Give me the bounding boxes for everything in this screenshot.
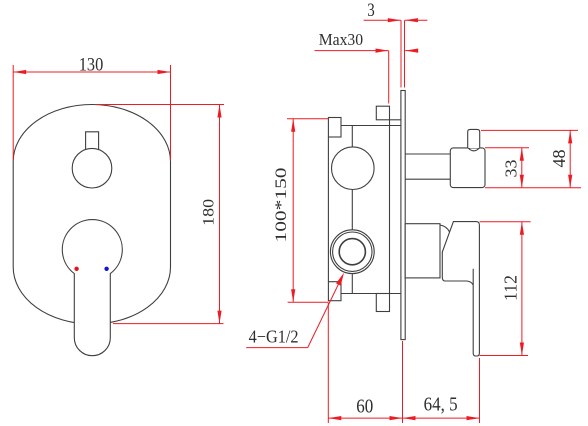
diverter knob button rectangle xyxy=(86,132,99,150)
svg-text:4−G1/2: 4−G1/2 xyxy=(249,327,299,347)
dimension 180 extension line bottom xyxy=(113,323,224,325)
dimension Max30 arrow left-pointing xyxy=(405,49,418,53)
dimension 60 line xyxy=(328,417,402,419)
mounting tab top-left xyxy=(328,118,341,138)
dimension 180 line xyxy=(219,105,221,324)
dimension 60/64,5 extension middle xyxy=(402,341,404,423)
dimension 112 extension bottom xyxy=(480,355,528,357)
dimension 112 extension top xyxy=(480,221,531,223)
lever handle outline (side view) xyxy=(442,222,479,356)
svg-text:Max30: Max30 xyxy=(319,30,363,49)
tab-to-plate line top xyxy=(390,119,402,121)
svg-text:60: 60 xyxy=(356,397,373,418)
dimension 130 extension line left xyxy=(12,65,14,160)
dimension Max30 extension line xyxy=(388,51,390,104)
dimension 180 arrow top xyxy=(217,105,221,118)
dimension 100*150 text xyxy=(273,168,290,243)
dimension 48 arrow top xyxy=(568,130,572,143)
dimension 33 line xyxy=(521,148,523,188)
outlet stub fillet arc xyxy=(468,148,479,151)
dimension 100*150 extension bottom xyxy=(288,301,329,303)
dimension Max30 line right xyxy=(405,50,413,52)
dimension 64,5 arrow left xyxy=(403,416,416,420)
dimension 3 extension pair left xyxy=(400,20,402,87)
dimension 100*150 line xyxy=(292,119,294,302)
dimension 3 arrow right xyxy=(405,18,418,22)
label 4-G1/2 text xyxy=(249,327,299,347)
dimension 60 extension left xyxy=(327,303,329,423)
extension line elbow bottom xyxy=(485,187,581,189)
dimension 180 extension line top xyxy=(97,104,224,106)
dimension Max30 line left xyxy=(315,50,389,52)
dimension 3 line left xyxy=(364,19,401,21)
valve body outline xyxy=(328,120,401,294)
svg-text:100*150: 100*150 xyxy=(273,168,290,243)
dimension 64,5 line xyxy=(403,417,480,419)
handle boss (escutcheon sleeve) xyxy=(405,224,440,278)
dimension 112 arrow bottom xyxy=(520,343,524,356)
valve body centerline xyxy=(351,126,353,294)
hot indicator red dot xyxy=(74,267,78,271)
dimension 64,5 extension right xyxy=(479,358,481,423)
lever handle (front view, circle + stem outline) xyxy=(62,220,122,356)
inlet port outer circle xyxy=(330,230,374,274)
faceplate (front view escutcheon oval) xyxy=(13,105,170,325)
wall plate (3mm panel, side view) xyxy=(401,91,405,340)
dimension 180 arrow bottom xyxy=(217,311,221,324)
outlet elbow block xyxy=(450,148,485,188)
dimension 33 arrow bottom xyxy=(520,175,524,188)
mounting tab bottom-left xyxy=(328,282,341,301)
diverter knob circle (front view) xyxy=(72,148,112,188)
leader 4-G1/2 underline xyxy=(246,347,308,349)
dimension 100*150 arrow bottom xyxy=(291,289,295,302)
dimension 3 text xyxy=(367,1,375,21)
dimension 112 text xyxy=(500,275,520,301)
dimension Max30 arrow xyxy=(376,49,389,53)
dimension 100*150 arrow top xyxy=(291,119,295,132)
extension line elbow stub top xyxy=(481,129,578,131)
dimension Max30 text xyxy=(319,30,363,49)
dimension 33 text xyxy=(502,160,521,178)
svg-text:33: 33 xyxy=(502,160,521,178)
dimension 48 line xyxy=(569,130,571,187)
dimension 3 arrow left xyxy=(388,18,401,22)
dimension 64,5 arrow right xyxy=(467,416,480,420)
dimension 112 arrow top xyxy=(520,222,524,235)
dimension 130 extension line right xyxy=(170,65,172,161)
shower outlet pipe top edge xyxy=(405,153,450,155)
leader 4-G1/2 line xyxy=(308,278,342,348)
cold indicator blue dot xyxy=(104,267,108,271)
svg-text:130: 130 xyxy=(79,54,104,75)
mounting tab bottom-right xyxy=(376,294,389,312)
dimension 130 arrow left xyxy=(13,70,26,74)
svg-text:48: 48 xyxy=(549,149,569,167)
extension line elbow top xyxy=(485,147,529,149)
dimension 60 arrow right xyxy=(390,416,403,420)
dimension 60 arrow left xyxy=(328,416,341,420)
dimension 180 text xyxy=(200,199,217,226)
dimension 130 text xyxy=(79,54,104,75)
lever blade front edge line xyxy=(472,269,474,285)
svg-text:180: 180 xyxy=(200,199,217,226)
dimension 3 extension pair right xyxy=(404,20,406,87)
inlet port middle circle xyxy=(333,232,372,271)
leader 4-G1/2 arrowhead xyxy=(336,273,344,286)
dimension 48 arrow bottom xyxy=(568,175,572,188)
dimension 33 arrow top xyxy=(520,148,524,161)
svg-text:112: 112 xyxy=(500,275,520,301)
dimension 3 line right xyxy=(405,19,428,21)
mounting tab top-right xyxy=(376,106,389,120)
diverter cartridge circle (side view) xyxy=(332,147,375,190)
dimension 64,5 text xyxy=(424,394,458,416)
outlet stub on elbow xyxy=(468,129,480,148)
dimension 60 text xyxy=(356,397,373,418)
dimension 130 arrow right xyxy=(158,70,171,74)
svg-text:64, 5: 64, 5 xyxy=(424,394,458,416)
dimension 112 line xyxy=(521,222,523,356)
boss-to-handle fillet arc xyxy=(440,225,450,232)
shower outlet pipe bottom edge xyxy=(405,178,450,180)
dimension 130 line xyxy=(13,71,170,73)
svg-text:3: 3 xyxy=(367,1,375,21)
dimension 100*150 extension top xyxy=(287,118,328,120)
dimension 48 text xyxy=(549,149,569,167)
inlet port inner circle xyxy=(339,239,365,265)
